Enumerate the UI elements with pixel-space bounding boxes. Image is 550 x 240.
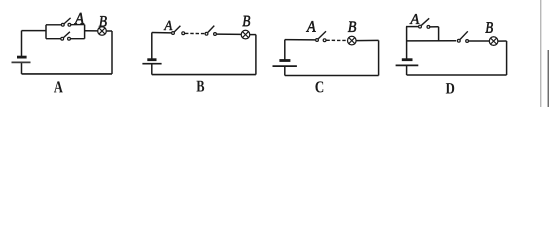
label A (switch S6) xyxy=(410,14,420,24)
wire top-left horizontal xyxy=(152,32,172,34)
wire right vertical xyxy=(506,41,508,75)
wire switch to lamp xyxy=(217,33,241,35)
switch S7 (open) xyxy=(457,31,468,42)
label option B xyxy=(196,81,204,92)
switch S2 (bottom branch, open) xyxy=(61,32,71,40)
switch S6 (open, labelled A, in stub) xyxy=(419,18,430,28)
battery BT2 xyxy=(142,60,161,64)
wire top-left horizontal xyxy=(285,39,315,41)
wire lamp to right edge xyxy=(356,39,378,41)
label option D xyxy=(446,83,454,93)
wire left vertical lower xyxy=(406,65,408,75)
battery BT4 xyxy=(396,60,419,66)
label B (lamp L4) xyxy=(485,22,492,32)
battery BT1 xyxy=(12,57,31,62)
wire right vertical xyxy=(378,40,380,75)
wire switch to lamp (faded dashes) xyxy=(326,39,347,41)
wire stub top horizontal (switch branch) xyxy=(406,26,439,28)
rule horizontal (page rule at bottom) xyxy=(0,98,550,100)
lamp B (bulb) xyxy=(489,37,498,46)
wire left vertical lower xyxy=(284,66,286,75)
wire lamp to right edge xyxy=(107,30,112,32)
wire left vertical upper (top to battery) xyxy=(21,31,23,57)
wire stub right vertical xyxy=(438,27,440,41)
wire bottom horizontal xyxy=(152,74,256,76)
battery BT3 xyxy=(273,61,297,67)
label A (switch S3) xyxy=(164,21,173,30)
wire between switches (faded dashes) xyxy=(185,32,205,34)
wire box to lamp xyxy=(85,30,98,32)
rule vertical (table border at right) xyxy=(540,0,542,107)
wire main horizontal (shorting path, battery to switch S7) xyxy=(407,40,457,42)
lamp B (bulb) xyxy=(348,36,357,45)
wire parallel-box top branch xyxy=(46,24,85,26)
label A (switch S1) xyxy=(74,13,84,24)
rule vertical (page edge scan mark) xyxy=(547,50,549,107)
wire left vertical upper xyxy=(284,40,286,61)
wire left vertical lower xyxy=(151,64,153,75)
switch S5 (open, labelled A) xyxy=(316,31,326,41)
wire lamp to right edge xyxy=(250,34,256,36)
wire right vertical xyxy=(111,31,113,74)
label B (lamp L3) xyxy=(348,21,356,31)
wire right vertical xyxy=(255,35,257,75)
wire parallel-box left edge xyxy=(45,25,47,39)
wire parallel-box bottom branch xyxy=(46,38,85,40)
wire bottom horizontal xyxy=(285,75,379,77)
wire bottom horizontal xyxy=(22,73,113,75)
label A (switch S5) xyxy=(306,21,316,32)
lamp B (bulb) xyxy=(98,27,107,36)
wire parallel-box right edge xyxy=(84,25,86,39)
wire left vertical upper xyxy=(406,27,408,60)
label B (lamp L2) xyxy=(242,16,250,26)
switch S3 (open, labelled A) xyxy=(172,26,185,35)
wire lamp to right edge xyxy=(498,40,507,42)
wire switch to lamp xyxy=(469,40,489,42)
switch S4 (open) xyxy=(205,26,216,36)
label option C xyxy=(315,81,323,92)
switch S1 (top branch, open) xyxy=(61,18,70,26)
lamp B (bulb) xyxy=(241,30,250,39)
label B (lamp L1) xyxy=(99,16,107,26)
label option A xyxy=(54,81,63,92)
wire bottom horizontal xyxy=(407,74,507,76)
wire left vertical upper xyxy=(151,33,153,60)
wire top-left horizontal (battery to parallel box) xyxy=(22,30,47,32)
wire left vertical lower (battery to bottom) xyxy=(21,62,23,74)
